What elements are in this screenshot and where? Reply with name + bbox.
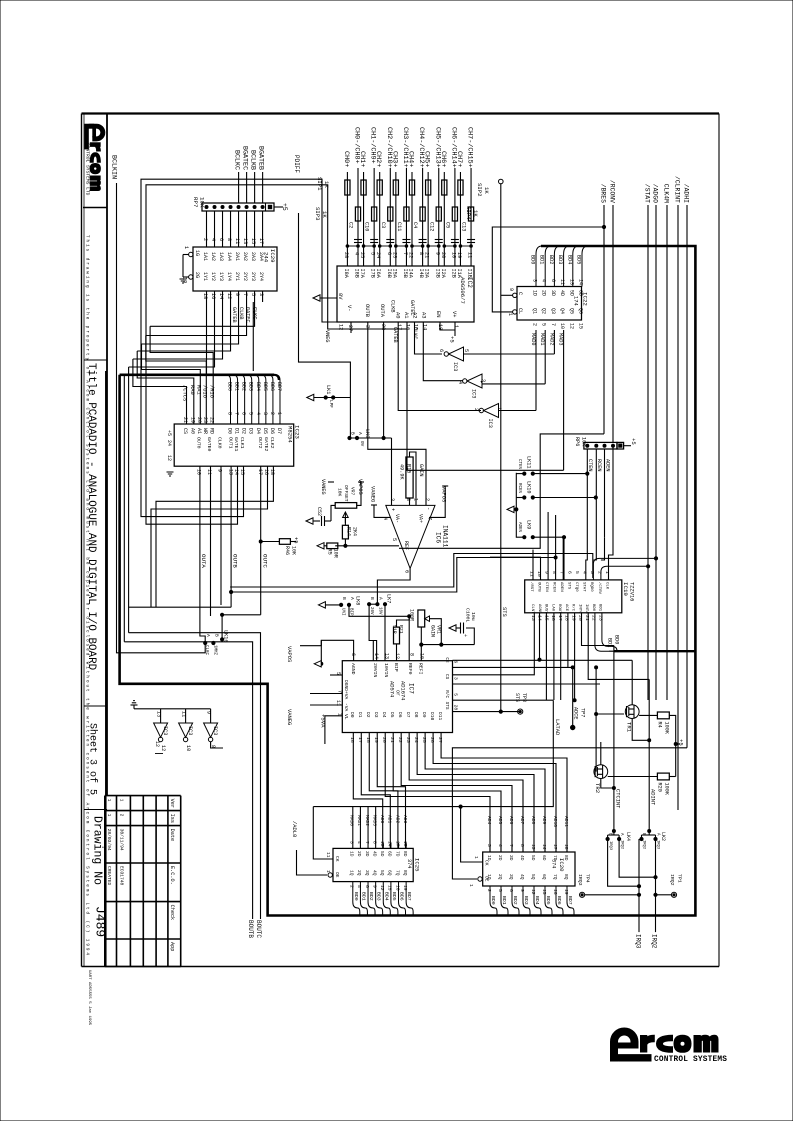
svg-text:174: 174	[573, 296, 579, 306]
svg-text:BD6: BD6	[399, 892, 405, 901]
svg-text:STS: STS	[567, 582, 571, 590]
svg-text:BD3: BD3	[523, 896, 529, 905]
svg-text:B: B	[214, 634, 220, 637]
svg-text:28: 28	[343, 252, 349, 258]
svg-text:LK3: LK3	[364, 429, 370, 438]
svg-text:4: 4	[354, 252, 360, 255]
svg-text:TP4: TP4	[585, 874, 591, 883]
svg-text:BD0: BD0	[353, 892, 359, 901]
svg-text:A1: A1	[196, 428, 202, 434]
svg-text:A3: A3	[421, 312, 427, 318]
svg-text:STAT: STAT	[582, 582, 586, 592]
svg-text:CREATED: CREATED	[106, 866, 112, 886]
svg-text:6: 6	[218, 238, 224, 241]
svg-text:4: 4	[255, 412, 261, 415]
svg-text:22: 22	[591, 615, 597, 621]
svg-text:20: 20	[440, 252, 446, 258]
svg-text:ADCE: ADCE	[573, 707, 579, 719]
svg-text:1A3: 1A3	[218, 252, 224, 261]
svg-text:100R: 100R	[409, 609, 415, 621]
svg-text:REF0: REF0	[407, 663, 413, 675]
svg-text:D3: D3	[248, 428, 254, 434]
svg-text:I1A: I1A	[456, 269, 462, 279]
svg-text:CL: CL	[517, 308, 523, 314]
svg-text:13: 13	[156, 711, 162, 717]
svg-text:VAPOS: VAPOS	[357, 479, 363, 495]
svg-text:BD4: BD4	[534, 896, 540, 905]
svg-text:3: 3	[532, 279, 538, 282]
svg-text:18: 18	[269, 469, 275, 475]
svg-text:Iss: Iss	[169, 814, 175, 823]
svg-text:INTC: INTC	[577, 604, 581, 614]
svg-text:16: 16	[349, 737, 355, 743]
svg-text:5: 5	[541, 323, 547, 326]
svg-text:M8254: M8254	[287, 426, 294, 443]
svg-text:C2: C2	[348, 222, 354, 228]
svg-text:BD3: BD3	[248, 382, 254, 391]
svg-text:2D: 2D	[541, 290, 547, 296]
svg-text:16: 16	[210, 293, 216, 299]
svg-text:5: 5	[248, 412, 254, 415]
svg-text:+: +	[462, 634, 468, 637]
svg-text:C52: C52	[316, 507, 322, 516]
svg-text:Q4: Q4	[559, 308, 565, 314]
svg-text:VANEG: VANEG	[286, 709, 292, 725]
svg-text:16: 16	[263, 469, 269, 475]
svg-text:-VA: -VA	[343, 703, 349, 712]
svg-text:1: 1	[507, 313, 513, 316]
svg-text:Check: Check	[169, 905, 175, 921]
svg-text:1: 1	[496, 407, 502, 410]
svg-text:A1: A1	[403, 312, 409, 318]
svg-text:15: 15	[387, 885, 393, 891]
svg-text:13: 13	[568, 279, 574, 285]
svg-text:5: 5	[356, 885, 362, 888]
svg-text:21: 21	[182, 417, 188, 423]
svg-text:27: 27	[437, 737, 443, 743]
svg-text:I2A: I2A	[440, 269, 446, 279]
svg-text:Ver: Ver	[169, 799, 175, 808]
svg-text:GATEC: GATEC	[409, 300, 415, 316]
svg-text:IRQ3: IRQ3	[635, 934, 642, 949]
svg-text:AD2: AD2	[394, 815, 400, 824]
svg-text:5: 5	[370, 252, 376, 255]
svg-text:1MHZ: 1MHZ	[213, 645, 217, 656]
svg-text:C11: C11	[396, 222, 402, 231]
svg-text:8Q: 8Q	[402, 870, 408, 876]
svg-text:1: 1	[106, 814, 112, 817]
svg-text:MAD2: MAD2	[364, 815, 370, 826]
svg-text:2A3: 2A3	[250, 252, 256, 261]
svg-text:10: 10	[195, 469, 201, 475]
svg-text:13: 13	[530, 615, 536, 621]
svg-text:BD2: BD2	[512, 896, 518, 905]
svg-text:4Q: 4Q	[371, 870, 377, 876]
svg-text:3: 3	[486, 844, 492, 847]
svg-text:8: 8	[418, 252, 424, 255]
svg-text:10: 10	[559, 323, 565, 329]
svg-text:16: 16	[550, 615, 556, 621]
svg-text:/RST: /RST	[529, 582, 534, 592]
svg-text:Q5: Q5	[568, 308, 574, 314]
svg-text:GAIN: GAIN	[430, 625, 436, 637]
svg-text:16: 16	[552, 889, 558, 895]
svg-text:10K: 10K	[199, 197, 206, 208]
svg-text:6D: 6D	[578, 290, 584, 296]
svg-text:6: 6	[453, 660, 459, 663]
svg-text:IC25: IC25	[414, 858, 421, 871]
svg-text:OUTB: OUTB	[536, 582, 540, 592]
svg-text:17: 17	[357, 737, 363, 743]
svg-text:CS: CS	[444, 674, 449, 680]
svg-text:100K: 100K	[664, 783, 670, 796]
svg-text:CH0+: CH0+	[342, 151, 350, 167]
svg-text:GATE1: GATE1	[233, 437, 239, 452]
svg-text:I5A: I5A	[391, 269, 397, 279]
svg-text:1G: 1G	[194, 250, 200, 256]
svg-text:2: 2	[424, 498, 430, 501]
svg-text:REFI: REFI	[418, 663, 424, 675]
svg-text:ECO1748: ECO1748	[119, 866, 125, 886]
svg-text:9: 9	[371, 885, 377, 888]
svg-text:V-: V-	[346, 305, 352, 311]
svg-text:11: 11	[529, 571, 535, 577]
svg-text:CLK: CLK	[604, 582, 608, 590]
svg-text:CLKC: CLKC	[412, 327, 418, 339]
svg-text:BCLKIN: BCLKIN	[110, 155, 118, 179]
svg-text:12: 12	[154, 741, 160, 747]
svg-text:19: 19	[563, 889, 569, 895]
svg-text:2A1: 2A1	[234, 252, 240, 261]
svg-text:1Y2: 1Y2	[210, 272, 216, 281]
svg-text:10u: 10u	[470, 612, 476, 621]
svg-text:24: 24	[413, 737, 419, 743]
svg-text:13: 13	[227, 469, 233, 475]
svg-text:11: 11	[181, 711, 187, 717]
svg-text:D6: D6	[269, 428, 275, 434]
svg-text:A0: A0	[395, 312, 401, 318]
svg-text:10: 10	[185, 745, 191, 751]
svg-text:CTQ0: CTQ0	[574, 582, 578, 592]
svg-text:D11: D11	[437, 712, 443, 721]
svg-text:R21: R21	[398, 625, 404, 634]
svg-text:BD3: BD3	[376, 892, 382, 901]
svg-text:1Q: 1Q	[349, 870, 355, 876]
svg-text:LA0: LA0	[550, 604, 554, 612]
svg-text:BD0: BD0	[490, 896, 496, 905]
svg-text:/STAT: /STAT	[644, 184, 651, 203]
svg-text:4Q: 4Q	[519, 874, 525, 880]
svg-text:6D: 6D	[541, 855, 547, 861]
svg-text:D2: D2	[241, 428, 247, 434]
svg-text:BD1: BD1	[234, 382, 240, 391]
svg-text:100K: 100K	[664, 722, 670, 735]
svg-text:BD7: BD7	[567, 896, 573, 905]
svg-text:2Q: 2Q	[356, 870, 362, 876]
svg-text:RA0: RA0	[189, 385, 195, 395]
svg-text:8: 8	[227, 412, 233, 415]
svg-text:I5B: I5B	[402, 269, 408, 278]
svg-text:374: 374	[406, 859, 412, 868]
svg-text:LPF: LPF	[328, 400, 333, 408]
svg-text:AD11: AD11	[563, 816, 569, 827]
svg-text:UART AD55555 5 Jan 1995: UART AD55555 5 Jan 1995	[87, 970, 91, 1026]
svg-text:I4A: I4A	[408, 269, 414, 279]
svg-text:C12: C12	[428, 222, 434, 231]
svg-text:27: 27	[347, 325, 353, 331]
svg-text:1Y4: 1Y4	[226, 272, 232, 281]
svg-text:17: 17	[552, 844, 558, 850]
svg-text:19: 19	[402, 885, 408, 891]
svg-text:12: 12	[530, 889, 536, 895]
svg-text:5: 5	[250, 293, 256, 296]
svg-text:23: 23	[405, 737, 411, 743]
svg-text:12: 12	[166, 455, 172, 461]
svg-text:+5: +5	[630, 438, 637, 445]
svg-text:+: +	[390, 508, 396, 511]
svg-text:1: 1	[473, 856, 479, 859]
svg-text:7: 7	[559, 571, 565, 574]
svg-text:VL: VL	[343, 714, 349, 720]
svg-text:14: 14	[373, 653, 379, 659]
svg-text:3: 3	[262, 412, 268, 415]
svg-text:BD1: BD1	[360, 892, 366, 901]
svg-text:11: 11	[325, 852, 331, 858]
svg-text:ROUT: ROUT	[557, 604, 561, 614]
svg-text:24: 24	[375, 252, 381, 258]
svg-text:BD6: BD6	[556, 896, 562, 905]
svg-text:CLK2: CLK2	[269, 437, 275, 449]
svg-text:LK9: LK9	[526, 520, 532, 529]
svg-text:20: 20	[196, 417, 202, 423]
svg-text:I8A: I8A	[343, 269, 349, 279]
svg-text:TR1: TR1	[626, 722, 633, 733]
svg-text:5Q: 5Q	[530, 874, 536, 880]
svg-text:CH3+: CH3+	[390, 151, 398, 167]
svg-text:CONTROL SYSTEMS LTD: CONTROL SYSTEMS LTD	[85, 143, 91, 196]
svg-text:20: 20	[381, 737, 387, 743]
svg-text:2: 2	[473, 408, 479, 411]
svg-text:BOUTC: BOUTC	[255, 920, 262, 938]
svg-text:8: 8	[519, 844, 525, 847]
svg-text:BD4: BD4	[255, 382, 261, 391]
svg-text:3D: 3D	[364, 851, 370, 857]
svg-text:1K: 1K	[483, 187, 490, 194]
svg-text:1D: 1D	[349, 851, 355, 857]
svg-text:GAIN: GAIN	[418, 464, 424, 476]
svg-text:IRQ2: IRQ2	[651, 934, 658, 949]
svg-text:3: 3	[349, 841, 355, 844]
svg-text:CLK4M: CLK4M	[663, 184, 670, 203]
svg-text:BD4: BD4	[566, 255, 572, 264]
svg-text:IC2: IC2	[466, 277, 473, 288]
svg-text:1Q: 1Q	[486, 874, 492, 880]
svg-text:AD574: AD574	[389, 681, 395, 697]
svg-text:5D: 5D	[379, 851, 385, 857]
svg-text:1: 1	[119, 799, 125, 802]
svg-text:2: 2	[596, 571, 602, 574]
svg-text:BD2: BD2	[241, 382, 247, 391]
svg-text:STS: STS	[444, 702, 449, 710]
svg-text:INA111: INA111	[442, 525, 449, 548]
svg-text:BD2: BD2	[368, 892, 374, 901]
svg-text:21: 21	[389, 737, 395, 743]
svg-text:RA1: RA1	[196, 385, 202, 395]
svg-text:4: 4	[356, 841, 362, 844]
svg-text:BCLKB: BCLKB	[249, 150, 257, 170]
svg-text:/CTCS: /CTCS	[182, 385, 188, 401]
svg-text:RP6: RP6	[574, 437, 580, 446]
svg-text:D5: D5	[389, 712, 395, 718]
svg-text:Drawing No: Drawing No	[90, 816, 103, 885]
svg-text:AD9: AD9	[541, 816, 547, 825]
svg-text:6: 6	[508, 889, 514, 892]
svg-text:VNEG: VNEG	[324, 330, 330, 342]
svg-text:/ADHI: /ADHI	[683, 184, 690, 203]
svg-text:RQD0: RQD0	[589, 582, 593, 592]
svg-text:5: 5	[574, 571, 580, 574]
svg-text:5: 5	[463, 349, 469, 352]
svg-text:1: 1	[183, 246, 189, 249]
svg-text:CTEN: CTEN	[544, 582, 548, 592]
svg-text:I7A: I7A	[359, 269, 365, 279]
svg-text:4: 4	[497, 844, 503, 847]
svg-text:R/C: R/C	[444, 690, 449, 698]
svg-text:5D: 5D	[530, 855, 536, 861]
svg-text:LK16: LK16	[223, 630, 229, 642]
svg-text:3D: 3D	[508, 855, 514, 861]
svg-text:A: A	[349, 597, 355, 600]
svg-text:10V: 10V	[378, 607, 382, 615]
svg-text:7D: 7D	[552, 855, 558, 861]
svg-text:3D: 3D	[550, 290, 556, 296]
svg-text:AD10: AD10	[552, 816, 558, 827]
svg-text:AD7: AD7	[519, 816, 525, 825]
svg-text:V+: V+	[451, 311, 457, 317]
svg-text:SIP2: SIP2	[476, 183, 483, 196]
svg-text:TP8: TP8	[521, 693, 527, 702]
svg-text:10K: 10K	[337, 488, 343, 497]
svg-text:I1B: I1B	[467, 269, 473, 278]
svg-text:BD4: BD4	[383, 892, 389, 901]
svg-text:R15: R15	[406, 464, 412, 473]
svg-text:2: 2	[202, 238, 208, 241]
svg-text:/CTRV: /CTRV	[597, 582, 602, 595]
svg-text:+5: +5	[449, 336, 456, 343]
svg-text:A: A	[357, 432, 363, 435]
svg-text:15: 15	[250, 238, 256, 244]
svg-text:8D: 8D	[402, 851, 408, 857]
svg-text:2: 2	[486, 889, 492, 892]
svg-text:14: 14	[578, 279, 584, 285]
svg-text:4: 4	[210, 238, 216, 241]
svg-text:7: 7	[550, 323, 556, 326]
svg-text:12: 12	[226, 293, 232, 299]
svg-text:1Y1: 1Y1	[202, 272, 208, 281]
svg-text:BD1: BD1	[539, 255, 545, 264]
svg-text:21: 21	[584, 615, 590, 621]
svg-text:DGND: DGND	[343, 680, 349, 691]
svg-text:7: 7	[508, 844, 514, 847]
svg-text:CH7-/CH15+: CH7-/CH15+	[466, 127, 474, 168]
svg-text:1D: 1D	[486, 855, 492, 861]
svg-text:6: 6	[241, 412, 247, 415]
svg-text:IC3: IC3	[162, 726, 168, 735]
svg-text:BD0: BD0	[614, 635, 620, 644]
svg-text:VAPOS: VAPOS	[286, 646, 292, 662]
svg-text:IRQ2: IRQ2	[642, 840, 646, 850]
svg-text:BD1: BD1	[501, 896, 507, 905]
svg-text:7: 7	[336, 690, 342, 693]
svg-text:C13: C13	[461, 222, 467, 231]
svg-text:19: 19	[570, 615, 576, 621]
svg-text:/UIO: /UIO	[202, 385, 208, 398]
svg-text:AD3: AD3	[402, 815, 408, 824]
svg-text:4D: 4D	[371, 851, 377, 857]
svg-text:3: 3	[453, 677, 459, 680]
svg-text:BGATEC: BGATEC	[241, 146, 249, 170]
svg-text:18: 18	[563, 844, 569, 850]
svg-text:1: 1	[413, 498, 419, 501]
svg-text:RCEN: RCEN	[596, 459, 602, 471]
svg-text:I3A: I3A	[424, 269, 430, 279]
svg-text:25: 25	[421, 737, 427, 743]
svg-text:11: 11	[467, 252, 473, 258]
svg-text:R46: R46	[284, 546, 290, 555]
svg-text:I8B: I8B	[354, 269, 360, 278]
svg-text:RCEN: RCEN	[551, 582, 555, 592]
svg-text:0V: 0V	[359, 441, 364, 447]
svg-text:7Q: 7Q	[552, 874, 558, 880]
svg-text:9: 9	[434, 252, 440, 255]
svg-text:IC3: IC3	[487, 419, 493, 428]
svg-text:8: 8	[405, 498, 411, 501]
svg-text:-: -	[425, 507, 431, 510]
svg-text:BD6: BD6	[269, 382, 275, 391]
svg-text:CS: CS	[182, 428, 188, 434]
svg-text:15: 15	[239, 469, 245, 475]
svg-text:D9: D9	[421, 712, 427, 718]
svg-text:ADEN: ADEN	[559, 582, 563, 592]
svg-text:BD7: BD7	[276, 382, 282, 391]
svg-text:6Q: 6Q	[387, 870, 393, 876]
svg-text:18: 18	[365, 737, 371, 743]
svg-text:AD1: AD1	[387, 815, 393, 824]
svg-text:CLK0: CLK0	[217, 437, 223, 449]
svg-text:8Q: 8Q	[563, 874, 569, 880]
svg-text:12: 12	[568, 323, 574, 329]
svg-text:19: 19	[456, 252, 462, 258]
svg-text:B: B	[369, 597, 375, 600]
svg-text:CTEN: CTEN	[587, 459, 593, 471]
svg-text:1A2: 1A2	[210, 252, 216, 261]
svg-text:1A1: 1A1	[202, 252, 208, 261]
svg-text:MAD0: MAD0	[349, 815, 355, 826]
svg-text:19: 19	[373, 737, 379, 743]
svg-text:+VA: +VA	[343, 691, 349, 700]
svg-text:6: 6	[404, 570, 410, 573]
svg-text:2D: 2D	[356, 851, 362, 857]
svg-text:VA+: VA+	[418, 514, 424, 523]
svg-text:10VIN: 10VIN	[383, 663, 389, 678]
svg-text:2: 2	[119, 814, 125, 817]
svg-text:14: 14	[233, 469, 239, 475]
svg-text:1A4: 1A4	[226, 252, 232, 261]
svg-text:D10: D10	[429, 712, 435, 721]
svg-text:BD0: BD0	[227, 382, 233, 391]
svg-text:IC23: IC23	[294, 425, 301, 439]
svg-text:AGND: AGND	[350, 663, 356, 675]
